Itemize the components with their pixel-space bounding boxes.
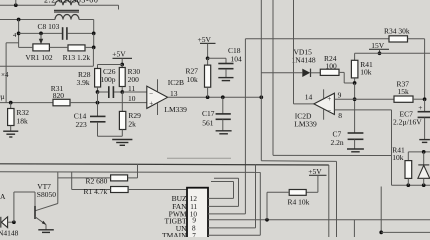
svg-text:2k: 2k — [128, 119, 136, 128]
svg-text:9: 9 — [338, 91, 342, 100]
svg-text:LM339: LM339 — [294, 119, 317, 128]
label 10k R27 — [187, 75, 199, 84]
node pin9 crossing — [353, 97, 357, 101]
wire TIGBT down — [353, 220, 355, 237]
resistor R32 — [8, 103, 14, 131]
wire R4 right — [306, 191, 318, 193]
power 15V — [369, 41, 389, 54]
label pin 8 mcu — [192, 224, 196, 232]
resistor R30 — [119, 65, 125, 93]
wire R31 row left — [0, 102, 53, 104]
power stub IC2D bottom — [323, 110, 325, 120]
ground C7 — [347, 149, 364, 152]
wire bottom right line — [381, 231, 430, 233]
svg-text:+5V: +5V — [198, 35, 212, 44]
svg-text:−: − — [149, 90, 153, 98]
label VT7 — [37, 182, 51, 191]
svg-text:+: + — [327, 95, 331, 103]
svg-text:−: − — [327, 107, 331, 115]
label 1N4148 — [292, 56, 316, 65]
svg-text:10k: 10k — [392, 153, 404, 162]
resistor R4 — [289, 190, 306, 196]
node C17 top — [221, 95, 225, 99]
ground C14 R29 — [112, 140, 132, 146]
wire zener rail — [392, 184, 430, 186]
label IC2D — [295, 111, 312, 120]
label C18 — [228, 46, 241, 55]
label pin 9 mcu — [192, 217, 196, 225]
svg-text:R34 30k: R34 30k — [384, 26, 410, 35]
label 2.2u16V — [393, 118, 422, 127]
label 18k — [17, 117, 29, 126]
svg-text:12: 12 — [190, 195, 198, 203]
svg-text:15k: 15k — [398, 87, 410, 96]
transformer T1 primary winding — [55, 1, 79, 6]
svg-text:R2 680: R2 680 — [86, 176, 108, 185]
wire pin9 line — [334, 98, 394, 100]
svg-text:2.2n: 2.2n — [331, 138, 344, 147]
ground C18 — [218, 78, 233, 81]
node R32 top — [9, 101, 13, 105]
node top-left junction — [14, 0, 18, 7]
op-amp IC2B — [147, 86, 168, 108]
label EC7 — [400, 110, 414, 119]
wire bus E collector line — [0, 171, 260, 174]
wire R28 R30 tops — [98, 64, 123, 66]
resistor R13 — [68, 45, 85, 51]
wire pin 4 — [6, 43, 19, 103]
wire VT7 collector — [35, 172, 58, 211]
svg-text:3.9k: 3.9k — [77, 78, 90, 87]
svg-text:×4: ×4 — [1, 71, 9, 79]
capacitor C8 — [63, 27, 67, 40]
svg-text:0µ: 0µ — [0, 93, 5, 101]
op-amp IC2D — [314, 93, 335, 115]
label top cut text — [44, 0, 98, 4]
wire R37 right — [413, 98, 425, 100]
label R29 — [128, 111, 141, 120]
wire bus A — [167, 157, 231, 159]
label R28 — [78, 70, 91, 79]
label TMAIN — [162, 231, 187, 240]
label 820 — [53, 91, 65, 100]
resistor R41 upper — [351, 60, 358, 83]
wire pin12 BUZ — [208, 182, 234, 199]
label R41 lower — [392, 146, 405, 155]
wire pin10 PWM — [208, 213, 245, 215]
wire IC2D output riser v4 — [294, 0, 314, 104]
label VR1 102 — [25, 53, 53, 62]
node R27 top — [206, 56, 210, 60]
node R28 bottom to pin10 — [96, 101, 100, 105]
wire zener node line — [408, 152, 430, 161]
label S8050 — [37, 190, 56, 199]
node zener bottom — [422, 183, 426, 187]
capacitor C18 — [218, 64, 233, 78]
label 223 — [76, 120, 88, 129]
capacitor EC7 — [418, 103, 430, 139]
svg-text:N4148: N4148 — [0, 229, 19, 237]
wire R29 vertical — [121, 92, 123, 111]
label PWM — [169, 210, 187, 219]
svg-text:8: 8 — [338, 111, 342, 120]
node C26 right R30 bottom — [120, 90, 124, 94]
resistor R24 — [320, 69, 339, 75]
ground R32 — [3, 131, 18, 137]
resistor R34 — [389, 36, 408, 42]
svg-text:C17: C17 — [202, 109, 215, 118]
label x4 fragment — [1, 71, 9, 79]
wire pin11 FAN — [208, 178, 239, 206]
label 561 — [202, 118, 214, 127]
svg-text:10k: 10k — [187, 75, 199, 84]
label C17 — [202, 109, 215, 118]
node zener top — [422, 150, 426, 154]
label R34 30k — [384, 26, 410, 35]
label UN — [176, 224, 187, 233]
svg-text:TMAIN: TMAIN — [162, 231, 187, 237]
ground C17 — [216, 131, 232, 134]
label pin 11 — [128, 84, 135, 93]
wire bus v3 — [272, 0, 274, 155]
label R2 680 — [86, 176, 108, 185]
node C8 line right — [92, 32, 96, 36]
label pin 13 — [170, 89, 178, 98]
capacitor C26 — [98, 86, 123, 98]
label LM339 IC2B — [164, 105, 187, 114]
label C7 — [333, 130, 342, 139]
wire R31 to IC2B pin10 — [70, 102, 147, 104]
wire pin8 line — [334, 110, 391, 185]
capacitor C14 — [90, 103, 106, 137]
transformer T1 core — [54, 10, 79, 12]
label pin 10 mcu — [190, 211, 198, 219]
label 100 R24 — [326, 62, 338, 71]
svg-text:13: 13 — [170, 89, 178, 98]
label R32 — [17, 108, 30, 117]
wire primary right — [79, 5, 119, 9]
svg-text:100p: 100p — [101, 75, 116, 84]
label C14 — [74, 112, 87, 121]
diode VD 1N4148 — [1, 217, 14, 228]
node R30 top — [120, 63, 124, 67]
wire C14 R29 bottom — [98, 135, 123, 137]
wire R2 left — [58, 177, 111, 179]
svg-text:11: 11 — [128, 84, 135, 93]
node TIGBT R4 — [265, 218, 269, 222]
wire row to left edge — [0, 47, 93, 66]
wire EC7 top — [424, 99, 426, 111]
label R4 10k — [288, 198, 310, 207]
label 3.9k — [77, 78, 90, 87]
power +5V R27 — [198, 35, 216, 59]
ic MCU box — [187, 188, 208, 240]
zener diode VD — [418, 152, 430, 185]
svg-text:+5V: +5V — [308, 167, 322, 176]
wire secondary left rail — [0, 19, 55, 21]
svg-text:223: 223 — [76, 120, 88, 129]
label R1 4.7k — [84, 187, 108, 196]
wire R34 right down — [408, 39, 425, 99]
svg-text:C8 103: C8 103 — [38, 22, 60, 31]
label C26 — [103, 67, 116, 76]
wire R28 bottom down — [97, 92, 99, 103]
label TIGBT — [165, 216, 187, 225]
label 2k — [128, 119, 136, 128]
transistor VT7 base bar — [34, 206, 36, 219]
wire IC2B output — [168, 96, 262, 98]
wire bus B — [261, 161, 336, 237]
wire top primary rail — [0, 4, 55, 6]
wire secondary right — [79, 20, 94, 34]
label 10k R41 upper — [360, 68, 372, 77]
node C8 line left — [17, 32, 21, 36]
label pin 12 — [190, 195, 198, 203]
label 104 — [231, 55, 243, 64]
resistor R2 — [111, 175, 128, 181]
wire right bottom riser — [380, 187, 382, 233]
label pin 7 mcu — [192, 232, 196, 240]
label R13 1.2k — [63, 53, 91, 62]
power +5V IC2B — [112, 50, 132, 65]
label 2.2n — [331, 138, 344, 147]
wire VD15 line left — [261, 72, 302, 74]
node base junction — [12, 220, 16, 224]
svg-text:10k: 10k — [360, 68, 372, 77]
node secondary left junction — [17, 18, 21, 22]
node R41 lower bottom — [406, 183, 410, 187]
label C8 103 — [38, 22, 60, 31]
node VR1 row right — [92, 46, 96, 50]
resistor R41 lower — [405, 161, 412, 186]
power stub IC2D top — [323, 89, 325, 98]
svg-text:+5V: +5V — [112, 50, 126, 59]
node R27 bottom — [206, 95, 210, 99]
label R37 — [397, 79, 410, 88]
label R30 — [128, 67, 141, 76]
wire bus C — [0, 164, 329, 237]
resistor R1 — [111, 187, 129, 193]
label 10k R41 lower — [392, 153, 404, 162]
label LM339 IC2D — [294, 119, 317, 128]
label VD15 — [294, 47, 313, 56]
wire R1 left jog — [72, 172, 111, 190]
label A fragment — [0, 192, 6, 201]
wire pin7 TMAIN — [208, 172, 260, 235]
svg-text:2.2 020363-00: 2.2 020363-00 — [44, 0, 98, 4]
label IC2B — [168, 78, 184, 87]
svg-text:7: 7 — [192, 232, 196, 237]
label 200 — [128, 75, 140, 84]
label pin 11 mcu — [190, 203, 197, 211]
svg-text:+: + — [149, 99, 153, 107]
transformer T1 secondary winding — [55, 15, 79, 20]
label N4148 fragment — [0, 229, 19, 238]
wire VR1 wiper arrow — [39, 33, 43, 44]
wire top line — [245, 38, 389, 40]
wire C8 row left — [19, 32, 63, 34]
svg-text:A: A — [0, 192, 6, 201]
svg-text:200: 200 — [128, 75, 140, 84]
wire C8 row right — [67, 32, 93, 34]
label R41 upper — [360, 60, 373, 69]
ground VT7 emitter — [38, 230, 54, 233]
wire right vertical — [93, 33, 95, 47]
svg-text:9: 9 — [192, 217, 196, 225]
svg-text:+: + — [418, 103, 422, 112]
wire pin9 TIGBT — [208, 219, 430, 221]
wire R1 right — [128, 189, 187, 191]
power stub IC2B top — [157, 79, 159, 91]
svg-text:561: 561 — [202, 118, 214, 127]
wire pin8 UN — [208, 165, 256, 228]
wire bus v2 — [260, 0, 262, 161]
label pin 4 — [13, 32, 17, 39]
svg-text:IC2B: IC2B — [168, 78, 184, 87]
resistor R29 — [119, 111, 125, 136]
wire R2 right jog — [128, 164, 138, 178]
wire diode to R24 — [311, 72, 321, 74]
wire 15V line — [355, 53, 430, 60]
label 100p — [101, 75, 116, 84]
svg-text:R13 1.2k: R13 1.2k — [63, 53, 91, 62]
svg-text:S8050: S8050 — [37, 190, 56, 199]
label FAN — [172, 202, 187, 211]
wire VR1 row — [19, 46, 94, 48]
svg-text:820: 820 — [53, 91, 65, 100]
wire R24 right — [339, 72, 344, 83]
label R31 — [51, 84, 64, 93]
svg-text:1N4148: 1N4148 — [292, 56, 316, 65]
svg-text:2.2µ/16V: 2.2µ/16V — [393, 118, 422, 127]
svg-text:15V: 15V — [371, 41, 385, 50]
svg-text:R4 10k: R4 10k — [288, 198, 310, 207]
node bottom right — [379, 231, 383, 235]
svg-text:R1 4.7k: R1 4.7k — [84, 187, 108, 196]
label R27 — [186, 67, 199, 76]
node output to bus — [259, 95, 263, 99]
wire R4 left — [267, 192, 289, 220]
ground EC7 — [419, 140, 430, 143]
wire base L — [14, 192, 35, 222]
power +5V R4 — [308, 167, 326, 193]
diode VD15 — [302, 69, 310, 77]
wire VT7 emitter — [35, 217, 46, 230]
svg-text:LM339: LM339 — [164, 105, 187, 114]
svg-text:10: 10 — [128, 94, 136, 103]
svg-text:104: 104 — [231, 55, 243, 64]
svg-text:18k: 18k — [17, 117, 29, 126]
label BUZ — [172, 194, 187, 203]
wire left vertical to VR1 row — [18, 20, 20, 48]
wire R24 to R41 node — [344, 82, 354, 84]
wire to C18 — [208, 58, 226, 63]
wire PWM riser v1 — [244, 39, 246, 214]
capacitor C7 — [348, 133, 364, 149]
potentiometer VR1 — [33, 44, 50, 51]
label pin 9 — [338, 91, 342, 100]
svg-text:100: 100 — [326, 62, 338, 71]
node R37 right — [423, 97, 427, 101]
node C26 left — [96, 90, 100, 94]
node 15V line — [378, 51, 382, 55]
power stub IC2B bottom — [157, 103, 159, 115]
label pin 8 IC2D — [338, 111, 342, 120]
resistor R27 — [205, 58, 211, 97]
label pin 14 — [305, 93, 313, 102]
resistor R31 — [53, 99, 70, 106]
node R41 bottom — [353, 81, 357, 85]
label R24 — [324, 54, 337, 63]
wire R41 node down — [354, 83, 356, 133]
svg-text:14: 14 — [305, 93, 313, 102]
label pin 10 — [128, 94, 136, 103]
wire pin11 line — [122, 91, 147, 93]
label 15k — [398, 87, 410, 96]
resistor R28 — [95, 65, 101, 93]
svg-text:VR1 102: VR1 102 — [25, 53, 53, 62]
capacitor C17 — [216, 97, 231, 130]
label 0u fragment — [0, 93, 5, 101]
resistor R37 — [394, 96, 413, 102]
node VR1 wiper junction — [39, 32, 43, 36]
wire bus A right — [273, 154, 392, 156]
